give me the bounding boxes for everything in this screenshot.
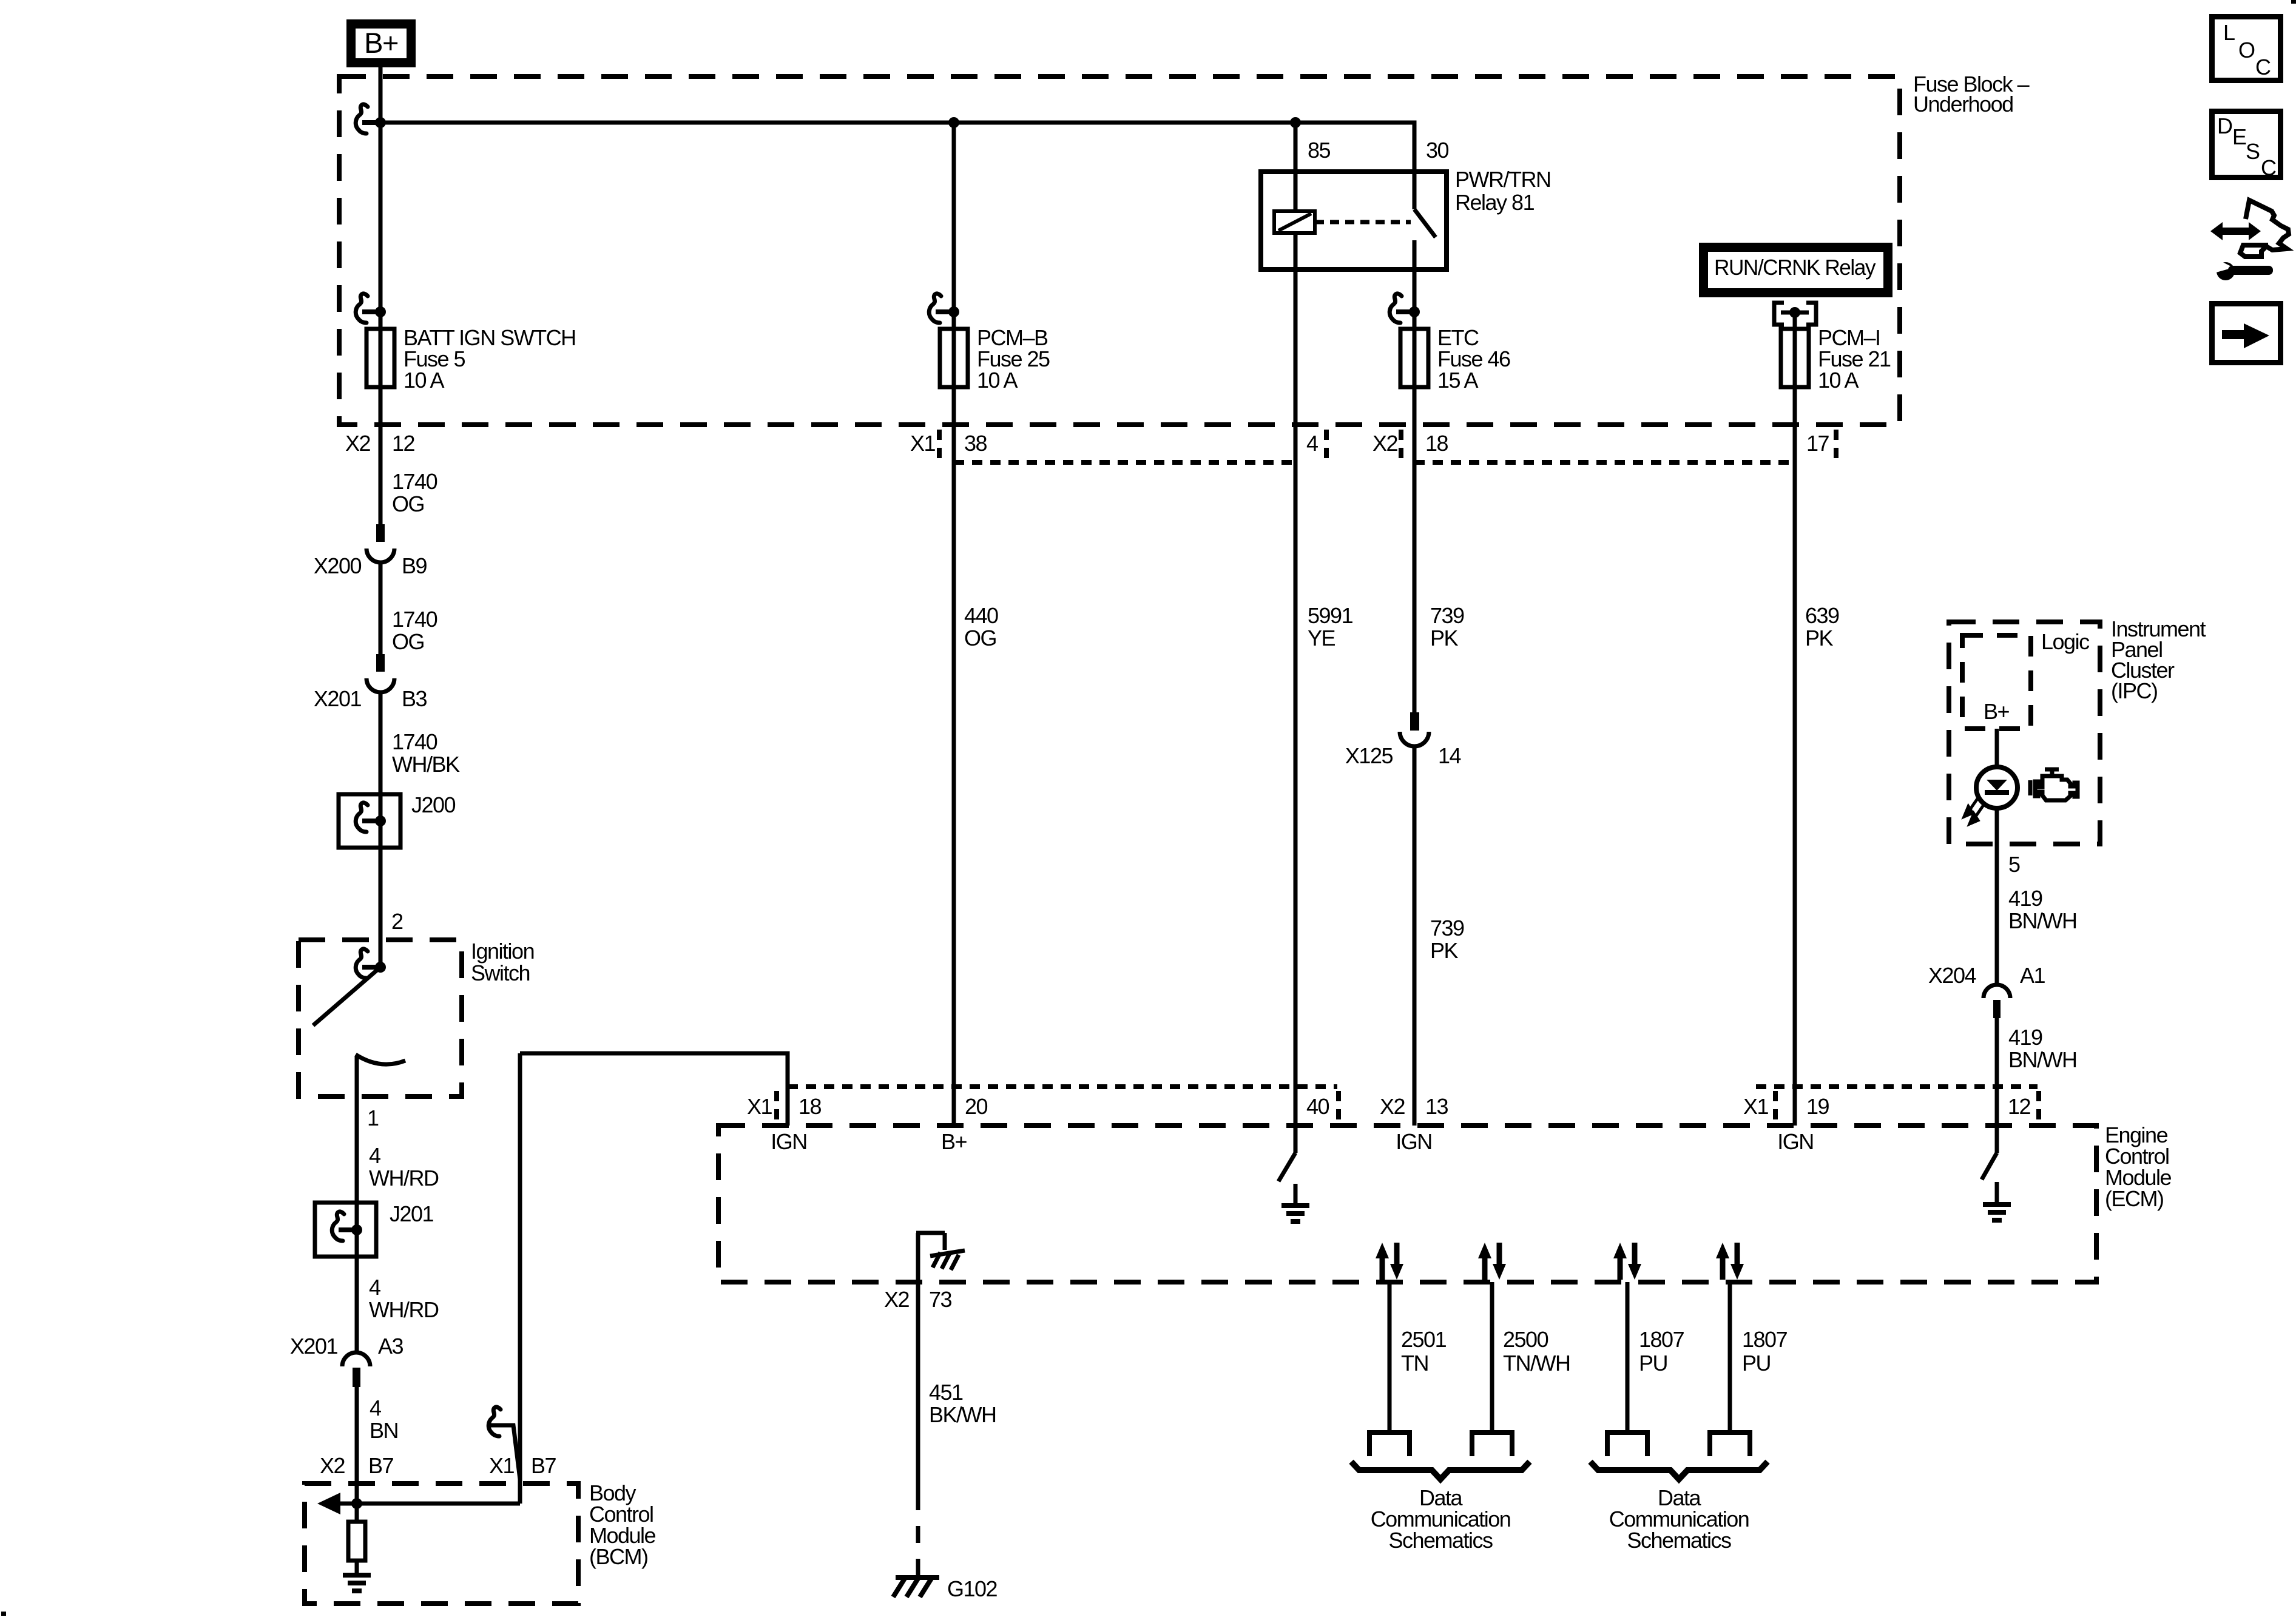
svg-text:J201: J201 xyxy=(390,1201,434,1226)
svg-text:X2: X2 xyxy=(345,431,371,456)
svg-text:X1: X1 xyxy=(910,431,936,456)
svg-text:1: 1 xyxy=(367,1106,379,1130)
svg-text:2: 2 xyxy=(391,909,403,934)
svg-text:PK: PK xyxy=(1805,626,1834,650)
svg-text:2501: 2501 xyxy=(1401,1327,1447,1352)
svg-text:10 A: 10 A xyxy=(977,368,1018,393)
svg-text:451: 451 xyxy=(929,1380,963,1405)
svg-text:739: 739 xyxy=(1430,603,1464,628)
svg-text:85: 85 xyxy=(1308,138,1331,163)
svg-text:18: 18 xyxy=(799,1094,822,1119)
svg-text:B3: B3 xyxy=(402,686,427,711)
svg-text:4: 4 xyxy=(370,1396,381,1420)
svg-text:12: 12 xyxy=(2008,1094,2031,1119)
svg-text:15 A: 15 A xyxy=(1437,368,1479,393)
svg-text:(BCM): (BCM) xyxy=(589,1544,647,1569)
svg-text:4: 4 xyxy=(369,1143,380,1168)
svg-text:20: 20 xyxy=(965,1094,988,1119)
svg-text:73: 73 xyxy=(929,1287,952,1312)
svg-text:WH/RD: WH/RD xyxy=(369,1166,439,1190)
svg-text:WH/BK: WH/BK xyxy=(392,752,460,777)
svg-text:X2: X2 xyxy=(884,1287,910,1312)
svg-text:BN: BN xyxy=(370,1418,398,1443)
svg-text:A3: A3 xyxy=(378,1334,403,1359)
svg-text:419: 419 xyxy=(2008,1025,2042,1050)
svg-text:X201: X201 xyxy=(314,686,362,711)
svg-text:(ECM): (ECM) xyxy=(2105,1186,2163,1211)
svg-text:OG: OG xyxy=(964,626,996,650)
svg-text:1807: 1807 xyxy=(1639,1327,1684,1352)
svg-text:Relay 81: Relay 81 xyxy=(1455,190,1535,215)
svg-text:G102: G102 xyxy=(947,1576,998,1601)
svg-text:J200: J200 xyxy=(411,792,456,817)
svg-text:C: C xyxy=(2255,55,2271,79)
svg-text:OG: OG xyxy=(392,629,424,654)
svg-text:17: 17 xyxy=(1806,431,1829,456)
svg-text:X2: X2 xyxy=(1380,1094,1405,1119)
svg-text:PK: PK xyxy=(1430,938,1459,963)
svg-text:X204: X204 xyxy=(1928,963,1976,988)
svg-text:TN: TN xyxy=(1401,1351,1428,1376)
svg-text:1740: 1740 xyxy=(392,469,437,494)
svg-text:Schematics: Schematics xyxy=(1627,1528,1731,1553)
svg-text:OG: OG xyxy=(392,491,424,516)
svg-text:BN/WH: BN/WH xyxy=(2008,908,2077,933)
svg-text:2500: 2500 xyxy=(1503,1327,1548,1352)
svg-text:Logic: Logic xyxy=(2041,629,2090,654)
svg-text:X201: X201 xyxy=(290,1334,338,1359)
svg-text:10 A: 10 A xyxy=(403,368,445,393)
svg-text:X1: X1 xyxy=(747,1094,772,1119)
svg-text:B+: B+ xyxy=(1984,699,2010,724)
svg-text:PU: PU xyxy=(1639,1351,1667,1376)
svg-text:419: 419 xyxy=(2008,886,2042,911)
svg-text:(IPC): (IPC) xyxy=(2111,678,2158,703)
svg-text:L: L xyxy=(2223,20,2235,45)
svg-text:Schematics: Schematics xyxy=(1388,1528,1493,1553)
svg-text:Underhood: Underhood xyxy=(1913,92,2013,116)
svg-text:X1: X1 xyxy=(489,1453,515,1478)
svg-text:5991: 5991 xyxy=(1308,603,1353,628)
svg-text:PWR/TRN: PWR/TRN xyxy=(1455,167,1550,192)
svg-text:IGN: IGN xyxy=(1396,1129,1432,1154)
svg-text:19: 19 xyxy=(1806,1094,1829,1119)
svg-text:BK/WH: BK/WH xyxy=(929,1402,996,1427)
svg-text:12: 12 xyxy=(392,431,415,456)
svg-text:5: 5 xyxy=(2008,852,2020,877)
svg-text:X1: X1 xyxy=(1743,1094,1769,1119)
svg-text:RUN/CRNK Relay: RUN/CRNK Relay xyxy=(1714,255,1876,280)
svg-text:X2: X2 xyxy=(1373,431,1398,456)
svg-text:BN/WH: BN/WH xyxy=(2008,1047,2077,1072)
svg-text:B7: B7 xyxy=(368,1453,394,1478)
svg-text:B+: B+ xyxy=(941,1129,967,1154)
svg-text:D: D xyxy=(2217,113,2232,138)
svg-text:WH/RD: WH/RD xyxy=(369,1297,439,1322)
svg-text:Ignition: Ignition xyxy=(471,939,534,964)
svg-text:X2: X2 xyxy=(320,1453,345,1478)
svg-text:YE: YE xyxy=(1308,626,1335,650)
svg-text:C: C xyxy=(2261,155,2276,180)
svg-text:B9: B9 xyxy=(402,553,427,578)
svg-text:739: 739 xyxy=(1430,916,1464,940)
svg-text:X125: X125 xyxy=(1345,743,1393,768)
svg-text:TN/WH: TN/WH xyxy=(1503,1351,1570,1376)
svg-text:4: 4 xyxy=(1306,431,1318,456)
svg-text:S: S xyxy=(2246,139,2260,164)
svg-text:1740: 1740 xyxy=(392,729,437,754)
svg-text:1740: 1740 xyxy=(392,607,437,632)
svg-text:O: O xyxy=(2238,38,2255,62)
svg-text:14: 14 xyxy=(1438,743,1461,768)
svg-text:IGN: IGN xyxy=(1777,1129,1814,1154)
svg-text:IGN: IGN xyxy=(771,1129,807,1154)
svg-text:B+: B+ xyxy=(364,27,398,59)
svg-text:38: 38 xyxy=(964,431,987,456)
svg-text:X200: X200 xyxy=(314,553,362,578)
svg-text:E: E xyxy=(2232,124,2246,149)
svg-text:10 A: 10 A xyxy=(1818,368,1859,393)
svg-text:13: 13 xyxy=(1425,1094,1448,1119)
svg-text:A1: A1 xyxy=(2020,963,2045,988)
svg-text:639: 639 xyxy=(1805,603,1839,628)
svg-text:40: 40 xyxy=(1306,1094,1329,1119)
svg-text:PK: PK xyxy=(1430,626,1459,650)
svg-text:Switch: Switch xyxy=(471,960,530,985)
svg-text:PU: PU xyxy=(1742,1351,1771,1376)
svg-text:440: 440 xyxy=(964,603,998,628)
svg-text:18: 18 xyxy=(1425,431,1448,456)
svg-text:1807: 1807 xyxy=(1742,1327,1788,1352)
svg-text:4: 4 xyxy=(369,1275,380,1300)
svg-text:B7: B7 xyxy=(531,1453,556,1478)
svg-text:30: 30 xyxy=(1426,138,1449,163)
